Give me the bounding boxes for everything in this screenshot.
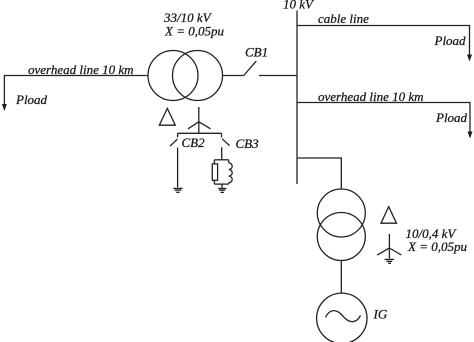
- svg-text:Pload: Pload: [15, 92, 48, 107]
- svg-text:IG: IG: [373, 307, 388, 322]
- svg-text:cable line: cable line: [318, 11, 369, 26]
- svg-text:overhead line 10 km: overhead line 10 km: [28, 62, 134, 77]
- svg-text:X = 0,05pu: X = 0,05pu: [164, 24, 224, 39]
- svg-text:CB1: CB1: [245, 44, 268, 59]
- svg-text:Pload: Pload: [434, 33, 467, 48]
- svg-text:CB2: CB2: [182, 135, 206, 150]
- svg-text:CB3: CB3: [236, 136, 260, 151]
- svg-text:10 kV: 10 kV: [283, 0, 315, 12]
- svg-text:X = 0,05pu: X = 0,05pu: [407, 239, 467, 254]
- svg-text:overhead line 10 km: overhead line 10 km: [318, 89, 424, 104]
- svg-text:Pload: Pload: [435, 110, 468, 125]
